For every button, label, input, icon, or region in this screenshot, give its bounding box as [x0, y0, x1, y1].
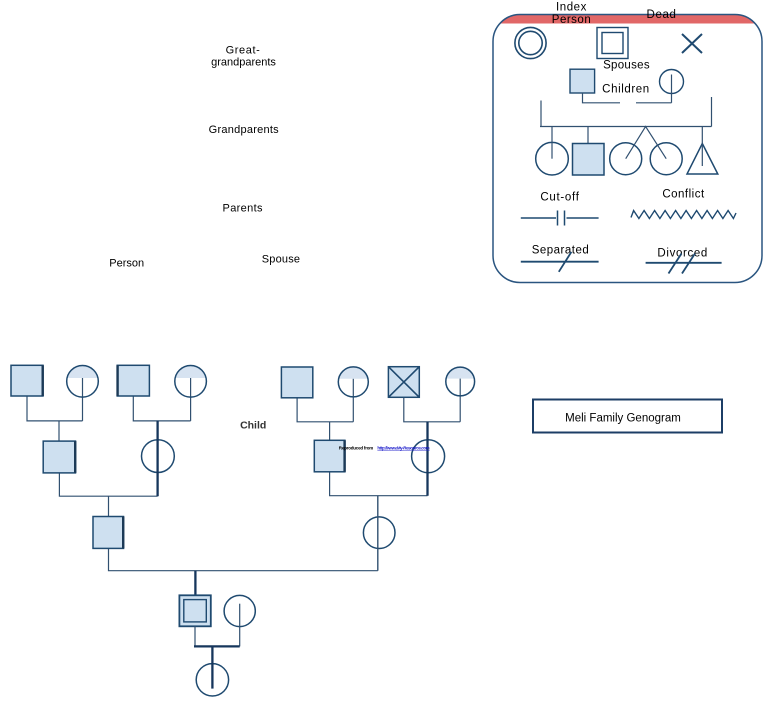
svg-text:Person: Person — [552, 14, 591, 26]
wire index marriage line (thick) — [194, 626, 196, 646]
generation label Great-grandparents — [211, 45, 276, 69]
legend twin circles — [610, 143, 642, 175]
wire spouse marriage line — [583, 93, 672, 103]
title box Meli Family Genogram — [533, 400, 722, 433]
wire GGP couple 4 marriage — [404, 397, 460, 422]
grandfather right (square) — [314, 440, 345, 472]
great-grandmother 3 (circle with cap) — [338, 367, 368, 422]
svg-text:Person: Person — [109, 258, 144, 270]
legend pregnancy triangle — [687, 144, 718, 175]
svg-text:Child: Child — [240, 420, 266, 432]
great-grandmother 1 (circle with cap) — [67, 366, 99, 421]
svg-text:Spouse: Spouse — [262, 254, 301, 266]
legend divorced symbol — [646, 254, 722, 274]
svg-text:Parents: Parents — [223, 203, 264, 215]
wire grandparents-right marriage — [330, 472, 428, 496]
watermark Reproduced from link — [339, 446, 430, 451]
wire thick descent to child — [211, 646, 213, 688]
great-grandfather 4 dead (square with X) — [388, 367, 419, 398]
wire child drop 2 — [587, 127, 589, 144]
wire thick descent through grandmother right — [426, 422, 428, 496]
wire descent through mother — [377, 496, 379, 571]
svg-text:Reproduced from: Reproduced from — [339, 446, 374, 451]
great-grandmother 4 (circle with cap) — [446, 367, 475, 422]
grandmother left (circle) — [142, 440, 175, 473]
svg-text:Meli Family Genogram: Meli Family Genogram — [565, 413, 681, 425]
great-grandfather 1 (square) — [11, 365, 43, 396]
grandfather left (square) — [43, 441, 75, 473]
wire GGP couple 1 marriage + descent — [27, 396, 83, 441]
father (square) — [93, 517, 124, 549]
legend spouse female (circle) — [660, 70, 684, 94]
svg-text:Children: Children — [602, 84, 650, 96]
wire child drop 1 — [551, 127, 553, 159]
great-grandfather 2 (square) — [117, 365, 149, 396]
svg-text:Dead: Dead — [647, 9, 677, 21]
svg-text:Divorced: Divorced — [657, 248, 708, 260]
mother (circle) — [363, 517, 395, 549]
legend conflict zigzag — [631, 211, 736, 219]
wire GGP couple 3 marriage + descent — [297, 398, 353, 441]
index person (double square) — [179, 595, 210, 626]
wire spouse descent — [239, 604, 241, 647]
legend index-person symbol (double square) — [597, 28, 628, 59]
wire parents marriage rail — [109, 548, 378, 570]
wire sibling rail — [540, 97, 712, 127]
wire GGP couple 2 marriage + thick descent — [133, 396, 190, 421]
great-grandmother 2 (circle with cap) — [175, 366, 207, 421]
legend separated symbol — [521, 252, 599, 272]
wire thick descent to index person — [194, 571, 196, 596]
wire grandparents-left marriage — [59, 473, 157, 517]
legend box — [493, 14, 762, 283]
wire twins V — [626, 127, 667, 159]
svg-text:Separated: Separated — [532, 245, 590, 257]
great-grandfather 3 (square) — [281, 367, 312, 398]
legend red header bar — [493, 14, 762, 24]
svg-text:Grandparents: Grandparents — [209, 124, 280, 136]
svg-text:Cut-off: Cut-off — [540, 192, 579, 204]
legend spouse male (square) — [570, 69, 595, 93]
legend child son square — [573, 144, 605, 176]
legend child daughter circle — [536, 142, 569, 175]
child circle — [196, 664, 228, 696]
wire child drop triangle — [701, 127, 703, 167]
legend label Index Person — [552, 2, 591, 27]
svg-text:Great-: Great- — [226, 45, 261, 57]
legend cut-off symbol — [521, 211, 599, 226]
grandmother right (circle) — [412, 440, 445, 473]
svg-text:Conflict: Conflict — [662, 189, 705, 201]
svg-text:Spouses: Spouses — [603, 60, 650, 72]
wire spouse female descent — [671, 75, 673, 103]
svg-text:httpː//www.My-Resource.com: httpː//www.My-Resource.com — [377, 446, 429, 451]
legend index-person symbol (double circle) — [515, 27, 546, 58]
legend dead symbol (X) — [682, 34, 702, 53]
spouse of index (circle) — [224, 595, 255, 626]
svg-text:grandparents: grandparents — [211, 57, 276, 69]
wire thick descent through grandmother left — [156, 421, 158, 496]
svg-text:Index: Index — [556, 2, 587, 14]
